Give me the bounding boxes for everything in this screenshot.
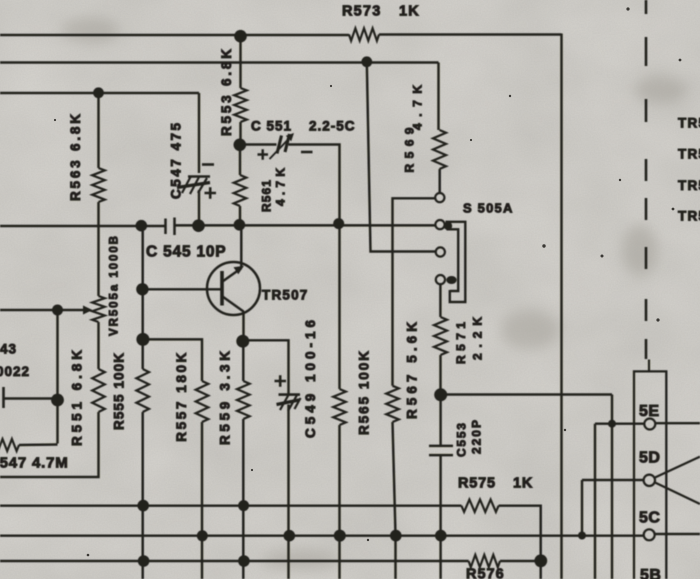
svg-text:4.7K: 4.7K <box>274 168 288 206</box>
svg-text:2.2-5C: 2.2-5C <box>309 119 356 134</box>
junction R557 node <box>136 333 149 346</box>
junction line1 / R553 <box>234 30 247 43</box>
wire R569 top lead from line 2 <box>437 63 439 131</box>
transistor TR507 body circle <box>207 262 260 315</box>
resistor R551 6.8K <box>92 369 105 412</box>
wire top supply line 1 (left of R573) <box>0 34 349 36</box>
transistor TR507 emitter diagonal <box>223 297 244 312</box>
switch S505A contact 2 <box>435 220 444 229</box>
wire emitter lead down <box>242 311 244 341</box>
wire 5E feed <box>595 422 644 424</box>
svg-text:C547 475: C547 475 <box>169 123 184 199</box>
connector pin 5E <box>644 419 655 430</box>
capacitor C543 plate <box>2 387 5 408</box>
svg-text:R573: R573 <box>342 4 381 20</box>
polarity plus C551 <box>258 149 269 159</box>
svg-text:5D: 5D <box>639 450 660 467</box>
wire R571 bottom lead <box>439 355 441 395</box>
wire bus 2 (middle) <box>0 534 644 536</box>
wire R557 top wire <box>143 339 202 381</box>
wire R565 bottom lead <box>338 425 340 579</box>
junction base node <box>136 283 148 295</box>
junction node/R561-collector <box>234 219 246 231</box>
wire C553 bottom lead <box>439 456 441 579</box>
svg-text:43: 43 <box>0 342 17 357</box>
wire R565 top lead <box>338 223 340 389</box>
svg-text:VR505a 1000B: VR505a 1000B <box>109 236 121 336</box>
wire VR505 element to R551 <box>97 322 99 369</box>
wire R559 bottom lead <box>242 419 244 579</box>
junction bus1/x143 <box>137 500 149 512</box>
wire bus 3 right segment <box>500 560 541 562</box>
svg-text:S 505A: S 505A <box>463 201 514 216</box>
wire emitter node to C549 <box>243 340 289 394</box>
wire node line left of C545 <box>0 225 165 227</box>
junction x612/5E wire <box>608 420 616 428</box>
wire switch contact1 to R567 column <box>393 198 435 385</box>
polarity minus C551 <box>301 151 313 154</box>
trimmer capacitor C551 plates <box>277 134 290 154</box>
svg-text:TR5: TR5 <box>678 178 700 193</box>
junction bus1/R559 <box>238 500 249 511</box>
svg-text:R551 6.8K: R551 6.8K <box>70 350 85 446</box>
svg-text:TR507: TR507 <box>262 288 309 303</box>
switch arm pivot blob lower <box>446 276 456 284</box>
svg-text:C549 100-16: C549 100-16 <box>303 320 318 438</box>
switch S505A contact 1 <box>435 193 444 202</box>
wire x143 column upper <box>141 226 143 369</box>
resistor R563 6.8K <box>92 168 105 202</box>
wire R561 top lead <box>239 145 241 175</box>
capacitor C549 top plate <box>279 393 301 396</box>
junction node/R565 branch <box>333 218 344 229</box>
resistor R559 3.3K <box>237 381 250 419</box>
capacitor C553 plates <box>429 446 453 455</box>
wire base lead <box>143 288 222 290</box>
junction line3 / R563 <box>93 87 104 98</box>
transistor TR507 collector diagonal with arrow <box>223 268 242 282</box>
capacitor C547 top plate <box>188 175 210 178</box>
wire bus 1 left segment <box>0 504 461 506</box>
resistor R557 180K <box>196 381 209 422</box>
arrowhead VR505 wiper <box>83 306 93 315</box>
wire VR505 wiper from left edge <box>0 309 87 311</box>
wire collector lead up to node line <box>240 225 242 268</box>
dashed section boundary line <box>645 0 648 359</box>
trimmer arrow C551 <box>270 138 291 160</box>
junction bus2/x582 <box>578 532 586 540</box>
wire C551 left lead <box>240 143 277 145</box>
svg-text:C 551: C 551 <box>251 119 292 134</box>
wire x582 vertical bus riser <box>581 480 583 536</box>
wire 5D feed <box>582 479 644 481</box>
wire 5D arrow lower <box>655 483 700 505</box>
junction bus3/R559 <box>238 555 250 567</box>
wire C549 bottom lead <box>287 405 289 579</box>
resistor R565 100K <box>333 389 346 425</box>
svg-text:R553 6.8K: R553 6.8K <box>219 49 234 136</box>
svg-text:TR5: TR5 <box>678 116 700 131</box>
svg-text:220P: 220P <box>470 420 484 454</box>
resistor R571 2.2K <box>434 317 447 355</box>
svg-text:R559 3.3K: R559 3.3K <box>218 351 233 445</box>
wire long vertical right branch of line 1 <box>560 34 562 579</box>
wire x612 vertical to bottom <box>611 395 613 579</box>
wire R563 bottom to VR505 element <box>97 202 99 296</box>
connector board edge box <box>634 371 666 579</box>
svg-text:R565 100K: R565 100K <box>357 351 372 435</box>
wire line 1 right segment to corner <box>379 33 562 35</box>
wire 5C right extension <box>655 533 700 535</box>
wire R571 node to right corner <box>446 393 612 395</box>
svg-text:R575: R575 <box>458 476 496 492</box>
svg-text:R567 5.6K: R567 5.6K <box>405 322 420 419</box>
junction C543 / R547 node <box>51 394 64 407</box>
resistor R573 1K (horizontal) <box>349 28 379 40</box>
wire R567 bottom lead <box>393 422 396 579</box>
junction node/x143 column <box>136 220 148 232</box>
junction emitter node <box>236 335 249 348</box>
connector pin 5C <box>644 529 655 540</box>
wire node line from C545 to switch contact <box>176 224 436 226</box>
polarity minus C547 <box>202 163 214 166</box>
capacitor C549 bottom plate (electrolytic hatched) <box>277 394 301 411</box>
switch S505A arm bracket <box>446 222 466 302</box>
wire x595 vertical to bottom <box>594 424 596 579</box>
polarity plus C547 <box>205 187 217 198</box>
wire bus 1 right segment and drop <box>499 506 541 579</box>
svg-text:R563 6.8K: R563 6.8K <box>68 114 83 201</box>
svg-text:5B: 5B <box>640 567 661 579</box>
wire 5D arrow upper <box>655 457 700 478</box>
junction bus2/C553 <box>435 530 447 542</box>
switch S505A contact 4 <box>436 275 445 284</box>
resistor R569 4.7K <box>433 130 446 169</box>
junction R571/C553 node <box>434 388 447 401</box>
svg-text:R561: R561 <box>260 180 274 212</box>
junction node/C547 <box>192 219 205 232</box>
resistor R567 5.6K <box>386 386 399 422</box>
wire R551 bottom lead and return to left edge <box>0 412 99 477</box>
dashed boundary stub into box <box>648 360 650 372</box>
wire C547 top lead <box>198 93 200 173</box>
potentiometer VR505 resistive element <box>92 296 105 322</box>
resistor R553 6.8K <box>234 88 247 122</box>
junction bus2/C549 <box>284 530 296 542</box>
junction C551 node <box>234 139 247 152</box>
wire R557 bottom lead <box>201 422 203 579</box>
capacitor C545 plates <box>166 218 175 236</box>
svg-text:5E: 5E <box>639 403 660 420</box>
svg-text:R555 100K: R555 100K <box>112 353 127 430</box>
switch arm pivot blob upper <box>444 222 452 230</box>
junction bus2/R565 <box>334 530 346 542</box>
svg-text:2.2K: 2.2K <box>471 317 485 360</box>
resistor R575 1K (horizontal) <box>461 500 498 512</box>
polarity plus C549 <box>275 375 287 386</box>
wire R561 bottom lead <box>239 206 241 225</box>
junction line2/x369 <box>361 56 372 67</box>
wire C551 right lead to R565 branch <box>289 145 340 224</box>
resistor R555 100K <box>136 369 149 412</box>
junction bus2/R567 <box>390 530 402 542</box>
svg-text:R576: R576 <box>466 567 505 579</box>
wire C543 to node <box>5 397 58 399</box>
svg-text:R547 4.7M: R547 4.7M <box>0 455 69 472</box>
wire x143 column lower <box>141 412 143 579</box>
resistor R561 4.7K <box>234 175 247 206</box>
wire supply line 3 to C547 branch corner <box>0 92 199 94</box>
connector pin 5D <box>644 475 655 486</box>
wire R569 bottom lead <box>438 169 440 193</box>
wire line2 node down to switch contact 3 <box>367 62 436 252</box>
svg-text:5C: 5C <box>639 510 660 527</box>
switch S505A contact 3 <box>436 247 445 256</box>
wire 5E right extension <box>656 422 700 424</box>
wire R547 right lead <box>19 443 58 446</box>
wire R553 top lead <box>239 36 241 89</box>
wire C547 bottom lead <box>198 190 200 226</box>
transistor TR507 base bar <box>220 271 224 306</box>
capacitor C547 bottom plate (electrolytic hatched) <box>177 176 210 194</box>
svg-text:1K: 1K <box>399 4 420 20</box>
svg-text:C 545 10P: C 545 10P <box>146 244 226 261</box>
junction bus2/R557 <box>197 530 208 541</box>
resistor R547 4.7M (horizontal, clipped at edge) <box>0 439 19 451</box>
wire node to C553 <box>439 395 441 445</box>
svg-text:TR5: TR5 <box>678 147 700 162</box>
wire R553 to C551 node <box>239 122 241 145</box>
svg-text:R557 180K: R557 180K <box>174 352 189 441</box>
junction bus3/x143 <box>138 555 150 567</box>
wire bus 3 left segment <box>0 560 469 562</box>
wire emitter node to R559 <box>242 341 244 381</box>
wire switch contact 4 to R571 <box>439 284 441 317</box>
wire wiper-node vertical x57.5 <box>56 310 58 444</box>
svg-text:0022: 0022 <box>0 364 30 379</box>
resistor R576 (horizontal) <box>469 555 500 567</box>
junction wiper line <box>52 305 63 316</box>
wire R563 top lead <box>97 93 99 168</box>
wire supply line 2 <box>0 61 439 63</box>
junction bus3/R575 drop <box>534 554 547 567</box>
svg-text:1K: 1K <box>513 476 533 492</box>
svg-text:TR5: TR5 <box>678 209 700 224</box>
